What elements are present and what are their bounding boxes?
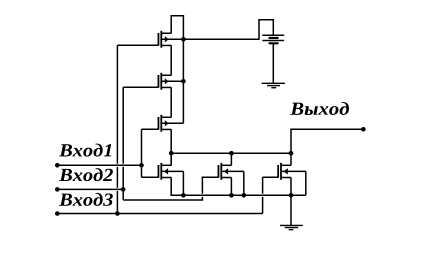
node VT5 bulk junction [242,193,247,198]
wire VT2 bulk to rail [161,80,183,82]
wire VT1 drain to VT2 source [170,45,172,75]
label Вход3 [59,193,113,206]
wire VT1 gate [117,44,158,46]
wire VT6 bulk [281,171,306,195]
node Вход2 terminal [55,187,60,192]
node Вход3 junction [115,211,120,216]
label Вход1 [59,144,111,157]
wire bulk rail (VDD) along PMOS stack [182,39,184,123]
wire VT3 gate [142,128,159,130]
wire ground rail [183,194,305,196]
transistor VT6 (NMOS) [278,163,291,180]
node Выход terminal [361,127,366,132]
wire VT4 bulk [161,171,183,195]
wire input3 riser to VT1 gate [116,45,118,213]
node output junction left [169,151,174,156]
ground (bottom) [280,225,303,229]
wire VT3 drain to output node [170,129,172,165]
node Вход3 terminal [55,211,60,216]
node output junction right [289,151,294,156]
wire VT2 gate [123,86,158,88]
label Выход [290,102,349,115]
wire ground drop [290,195,292,225]
node VT4 ground junction [181,193,186,198]
node VT2 bulk junction [181,79,186,84]
wire VT2 drain to VT3 source [170,87,172,117]
wire input line Вход1 [57,164,141,166]
wire VT5 drain [230,153,232,165]
wire output rail [171,152,291,154]
wire input line Вход2 [57,188,123,190]
node Вход1 terminal [55,163,60,168]
wire VT5 source [230,178,232,196]
node VT5 drain junction [229,151,234,156]
node VT6 ground junction [289,193,294,198]
wire VT1 bulk to VDD node [161,38,183,40]
wire input1 riser to VT3 gate and VT4 gate [142,129,159,177]
transistor VT5 (NMOS) [218,163,231,180]
node VDD junction [181,37,186,42]
wire VT1 source loop to VDD node [171,16,183,40]
wire battery to ground [272,43,274,83]
ground (top, battery return) [262,83,285,87]
node VT5 source junction [229,193,234,198]
wire VDD node to battery GB1 [183,20,273,40]
transistor VT1 (PMOS) [158,31,171,48]
wire VT6 source [290,178,292,196]
transistor VT4 (NMOS) [158,163,171,180]
transistor VT3 (PMOS) [158,115,171,132]
node Вход2 junction [121,187,126,192]
transistor VT2 (PMOS) [158,73,171,90]
wire VT4 source to ground rail [171,178,183,196]
wire VT4 drain to output node [170,153,172,165]
wire VT5 bulk [221,171,244,195]
wire output to terminal [291,129,363,153]
wire VT6 drain [290,153,292,165]
wire VT3 bulk to rail [161,122,183,124]
wire input line Вход3 to VT6 gate [57,177,278,213]
wire input2 riser to VT2 gate and VT5 gate [123,87,218,200]
node Вход1 junction [139,163,144,168]
battery GB1 (power supply) [262,35,284,43]
label Вход2 [59,168,113,181]
